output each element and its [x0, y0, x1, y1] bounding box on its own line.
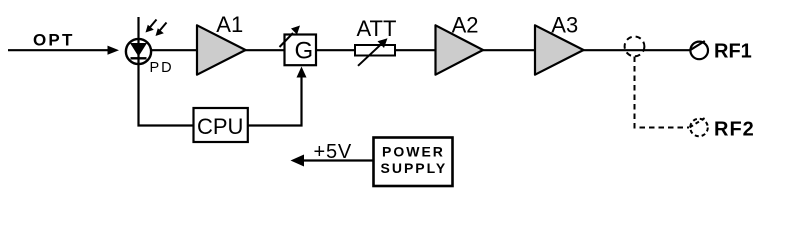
svg-text:PD: PD — [150, 60, 174, 76]
amplifier A3 — [535, 25, 584, 74]
wire CPU to G (control arrow) — [248, 67, 307, 126]
svg-text:OPT: OPT — [33, 31, 75, 50]
optional switch node (dashed circle) — [625, 37, 645, 57]
wire A1 to G — [245, 49, 285, 51]
+5V supply arrow — [291, 155, 375, 167]
connector RF2 — [690, 118, 708, 136]
wire PD vertical and feedback to CPU — [139, 17, 195, 126]
svg-text:POWER: POWER — [382, 143, 445, 159]
wire A3 to RF1 — [583, 49, 691, 51]
svg-text:ATT: ATT — [357, 16, 397, 41]
wire PD to A1 — [151, 49, 198, 51]
CPU box — [194, 108, 248, 142]
svg-text:RF2: RF2 — [714, 118, 755, 140]
svg-text:SUPPLY: SUPPLY — [381, 160, 448, 176]
attenuator ATT — [355, 38, 395, 66]
connector RF1 — [690, 41, 708, 59]
svg-text:+5V: +5V — [314, 141, 353, 163]
amplifier A2 — [436, 25, 484, 74]
dashed wire to RF2 — [635, 57, 690, 128]
wire OPT input arrow — [8, 46, 119, 55]
wire ATT to A2 — [395, 49, 436, 51]
label POWER SUPPLY — [381, 143, 448, 176]
wire G to ATT — [316, 49, 356, 51]
power supply box — [374, 138, 453, 187]
wire A2 to A3 — [482, 49, 536, 51]
gain block G — [285, 35, 317, 66]
svg-text:A1: A1 — [216, 12, 243, 37]
light arrow 2 — [156, 23, 167, 37]
svg-text:G: G — [295, 38, 314, 65]
amplifier A1 — [197, 25, 246, 74]
svg-text:A2: A2 — [452, 12, 479, 37]
gain adjust arrow — [280, 26, 301, 48]
light arrow 1 — [146, 20, 157, 33]
svg-text:CPU: CPU — [197, 114, 243, 139]
photodiode PD — [126, 39, 151, 64]
svg-text:A3: A3 — [551, 12, 578, 37]
svg-text:RF1: RF1 — [714, 41, 752, 63]
